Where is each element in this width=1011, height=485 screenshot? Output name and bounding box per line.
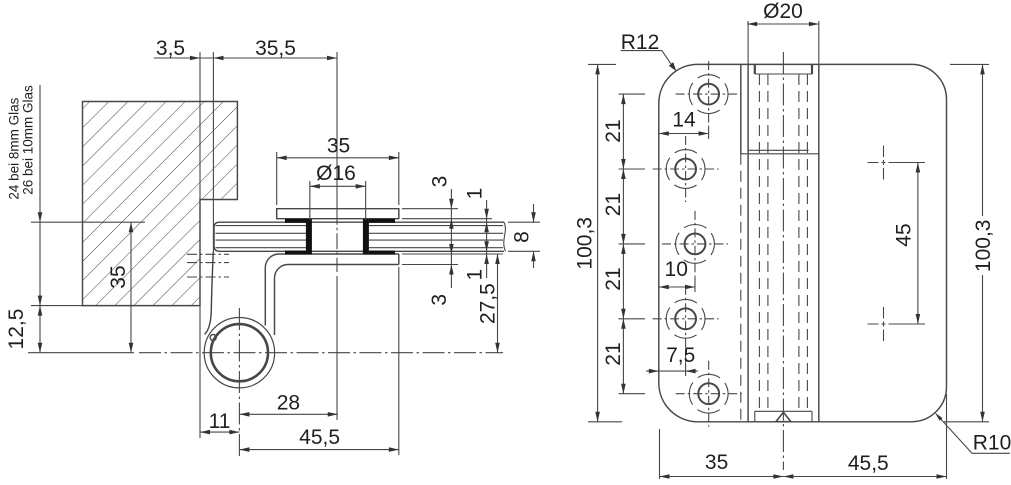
svg-text:3: 3: [428, 176, 451, 188]
svg-text:Ø20: Ø20: [763, 0, 803, 23]
svg-text:45,5: 45,5: [848, 452, 889, 475]
svg-text:8: 8: [511, 231, 534, 243]
svg-text:21: 21: [602, 342, 625, 365]
svg-text:21: 21: [602, 119, 625, 142]
svg-text:1: 1: [463, 188, 486, 200]
svg-text:26 bei 10mm Glas: 26 bei 10mm Glas: [20, 85, 35, 195]
svg-text:100,3: 100,3: [574, 217, 597, 270]
svg-text:7,5: 7,5: [666, 344, 695, 367]
svg-text:35: 35: [107, 265, 130, 288]
svg-text:21: 21: [602, 267, 625, 290]
svg-text:45: 45: [893, 223, 916, 246]
svg-text:R10: R10: [973, 432, 1011, 455]
svg-text:35: 35: [705, 451, 728, 474]
svg-text:12,5: 12,5: [5, 309, 28, 350]
svg-text:24 bei 8mm Glas: 24 bei 8mm Glas: [6, 97, 21, 199]
svg-text:3: 3: [428, 294, 451, 306]
svg-text:27,5: 27,5: [476, 283, 499, 324]
svg-text:11: 11: [209, 410, 231, 433]
svg-text:1: 1: [463, 269, 486, 281]
svg-text:R12: R12: [621, 31, 660, 54]
svg-text:3,5: 3,5: [156, 37, 185, 60]
svg-text:Ø16: Ø16: [316, 162, 356, 185]
svg-text:10: 10: [665, 258, 688, 281]
svg-text:45,5: 45,5: [299, 426, 340, 449]
svg-text:35,5: 35,5: [255, 37, 296, 60]
svg-text:35: 35: [327, 135, 350, 158]
svg-text:28: 28: [277, 391, 300, 414]
svg-text:14: 14: [672, 109, 696, 132]
svg-text:21: 21: [602, 193, 625, 216]
svg-text:100,3: 100,3: [972, 220, 995, 273]
